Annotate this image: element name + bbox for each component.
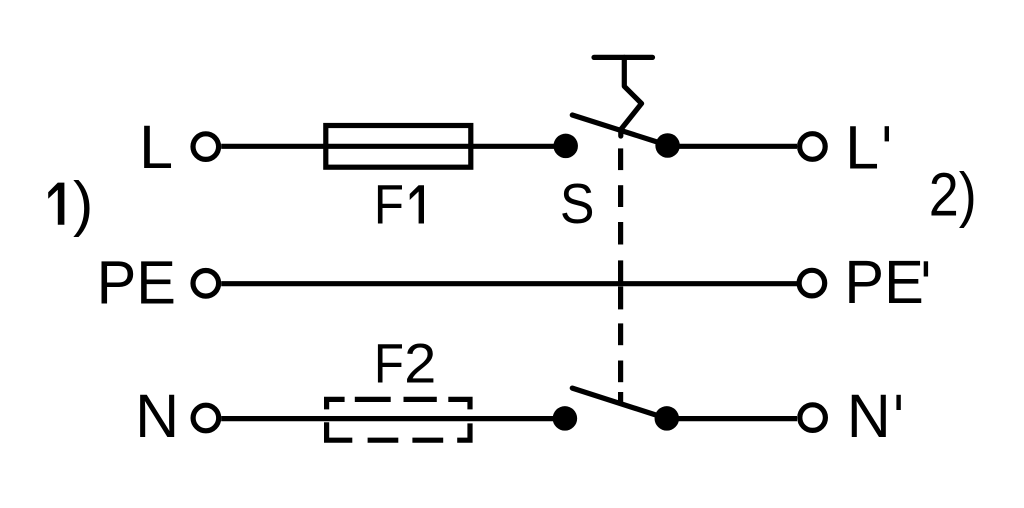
switch contact node right (N pole) [655, 406, 680, 431]
terminal PE' (output circle) [799, 270, 825, 296]
fuse F2 dashed bottom-right corner [457, 423, 470, 440]
svg-text:N: N [847, 382, 891, 450]
terminal L' (output circle) [800, 134, 826, 160]
svg-text:N: N [135, 382, 179, 450]
fuse F2 dashed bottom dash b [412, 438, 443, 443]
fuse F2 dashed bottom dash a [368, 438, 399, 443]
mechanical linkage dashed line [618, 148, 623, 404]
svg-text:F: F [374, 332, 404, 395]
fuse F2 dashed bottom-left corner [327, 422, 353, 440]
switch S actuator zigzag link [621, 57, 642, 136]
wire switch to terminal N' [667, 416, 797, 421]
label 1) [48, 183, 64, 225]
svg-text:PE: PE [97, 248, 176, 316]
svg-text:S: S [560, 172, 595, 236]
svg-text:F: F [374, 173, 404, 236]
wire N input to switch [221, 416, 565, 421]
fuse F2 dashed top-left corner [327, 399, 345, 409]
wire L input to switch [221, 144, 566, 149]
svg-text:L: L [845, 113, 879, 181]
fuse F2 dashed top dash b [404, 397, 437, 402]
wire switch to terminal L' [668, 144, 797, 149]
switch S blade (L pole) [572, 115, 665, 145]
fuse F2 dashed top dash a [355, 397, 391, 402]
switch contact node left (N pole) [553, 406, 578, 431]
svg-text:): ) [73, 170, 93, 238]
terminal N' (output circle) [800, 405, 826, 431]
svg-text:2): 2) [929, 160, 977, 228]
terminal PE (input circle) [193, 271, 219, 297]
fuse F1 [326, 126, 471, 168]
svg-text:L: L [139, 113, 173, 181]
terminal L (input circle) [193, 134, 219, 160]
switch S contact node left (L pole) [553, 134, 578, 159]
svg-text:PE: PE [844, 248, 923, 316]
wire PE through [221, 281, 797, 286]
switch blade (N pole) [572, 388, 664, 418]
svg-text:2: 2 [404, 332, 436, 395]
fuse F2 dashed top-right corner [448, 399, 470, 409]
switch S contact node right (L pole) [655, 133, 680, 158]
switch S manual actuator T-bar [594, 55, 653, 60]
terminal N (input circle) [193, 405, 219, 431]
